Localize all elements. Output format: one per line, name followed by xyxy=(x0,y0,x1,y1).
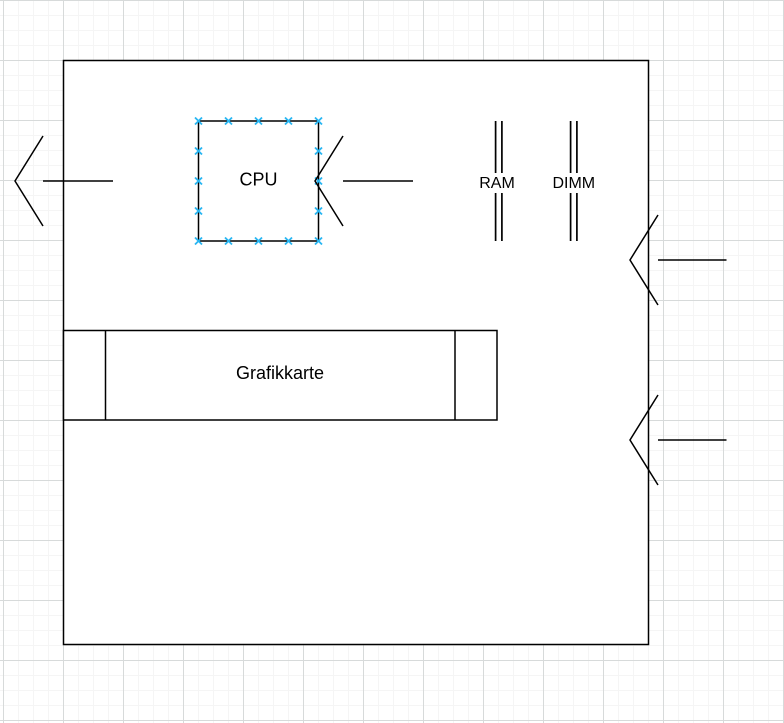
svg-text:CPU: CPU xyxy=(239,170,277,190)
arrow into motherboard right side upper xyxy=(630,215,727,305)
CPU square xyxy=(199,121,319,241)
arrow into CPU right side xyxy=(315,136,413,226)
RAM double-line symbol xyxy=(479,121,515,241)
svg-text:RAM: RAM xyxy=(479,175,515,192)
svg-text:DIMM: DIMM xyxy=(552,175,595,192)
arrow into motherboard right side lower xyxy=(630,395,727,485)
DIMM double-line symbol xyxy=(552,121,595,241)
arrow into motherboard left side xyxy=(15,136,113,226)
svg-text:Grafikkarte: Grafikkarte xyxy=(236,363,324,383)
Grafikkarte process box xyxy=(64,331,498,421)
motherboard outline rectangle xyxy=(64,61,649,645)
CPU connection point crosses xyxy=(195,118,322,245)
